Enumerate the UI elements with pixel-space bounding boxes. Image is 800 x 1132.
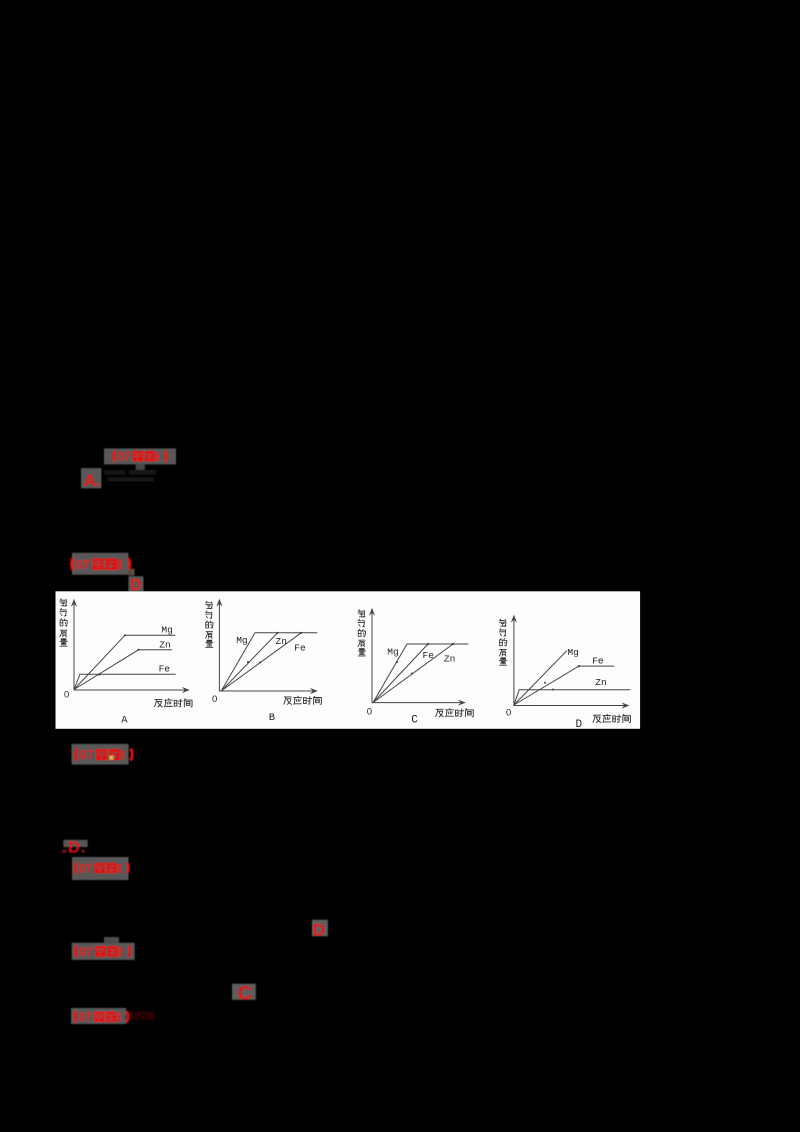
chart C y-axis bbox=[371, 610, 373, 703]
svg-text:Mg: Mg bbox=[236, 635, 247, 646]
chart B y-axis bbox=[218, 601, 220, 691]
svg-text:0: 0 bbox=[64, 690, 69, 701]
svg-text:C: C bbox=[411, 714, 418, 726]
chart B x label 反应时间 bbox=[284, 696, 322, 704]
highlight box A bbox=[81, 468, 101, 488]
highlight box 7 bbox=[72, 943, 135, 960]
chart A y-axis bbox=[73, 601, 75, 690]
svg-text:D: D bbox=[312, 920, 325, 939]
svg-text:Fe: Fe bbox=[423, 650, 435, 661]
chart B dots bbox=[247, 632, 302, 664]
chart C Fe line bbox=[373, 644, 428, 703]
chart C Zn line bbox=[373, 644, 453, 703]
svg-text:Fe: Fe bbox=[294, 642, 306, 653]
chart A x label 反应时间 bbox=[154, 699, 192, 707]
chart B Mg line bbox=[221, 633, 317, 691]
svg-text:C: C bbox=[238, 982, 252, 1004]
chart D y-axis bbox=[513, 617, 515, 706]
highlight box 1 bbox=[104, 448, 176, 464]
chart D x-axis bbox=[514, 705, 625, 707]
red annotation 3 bbox=[76, 748, 133, 762]
chart D Mg line bbox=[514, 651, 567, 705]
chart C x label 反应时间 bbox=[436, 708, 474, 716]
highlight box 9 bbox=[71, 1008, 126, 1024]
brown square bbox=[128, 569, 134, 576]
chart D Fe line bbox=[514, 666, 614, 705]
chart D x label 反应时间 bbox=[593, 714, 631, 722]
svg-text:A: A bbox=[121, 715, 128, 727]
svg-text:Zn: Zn bbox=[595, 677, 606, 688]
ghost blob above box 7 bbox=[104, 937, 119, 943]
svg-text:0: 0 bbox=[367, 707, 372, 718]
chart C Mg line bbox=[373, 644, 468, 703]
svg-text:0: 0 bbox=[506, 707, 511, 718]
svg-text:B: B bbox=[269, 712, 275, 724]
svg-text:Mg: Mg bbox=[387, 647, 398, 658]
highlight box small D bbox=[312, 920, 328, 936]
svg-text:D: D bbox=[576, 719, 583, 731]
chart D y label 氢气的质量 bbox=[499, 619, 507, 665]
ghost marks right of A bbox=[104, 470, 156, 482]
chart A x-axis bbox=[74, 689, 186, 691]
chart B x-axis bbox=[219, 690, 313, 692]
svg-text:Zn: Zn bbox=[276, 636, 287, 647]
svg-text:A.: A. bbox=[84, 471, 101, 490]
svg-text:Zn: Zn bbox=[444, 653, 455, 664]
highlight box 5 bbox=[72, 857, 129, 880]
chart B Fe line bbox=[221, 633, 301, 691]
svg-text:Fe: Fe bbox=[159, 664, 171, 675]
chart D Zn line bbox=[514, 690, 630, 705]
svg-text:0: 0 bbox=[212, 694, 217, 705]
chart B Zn line bbox=[221, 633, 277, 691]
chart A Fe line bbox=[74, 674, 175, 689]
chart D dots bbox=[544, 665, 580, 691]
chart A dots bbox=[98, 634, 139, 675]
red annotation 7 bbox=[75, 945, 130, 959]
red annotation 5 bbox=[75, 861, 128, 875]
yellow dot bbox=[109, 756, 113, 760]
highlight box C bbox=[232, 984, 256, 1000]
highlight box D bbox=[128, 576, 143, 591]
highlight box D. bbox=[63, 840, 87, 847]
svg-text:D.: D. bbox=[68, 839, 86, 856]
chart B y label 氢气的质量 bbox=[205, 601, 213, 647]
svg-text:Fe: Fe bbox=[592, 655, 604, 666]
red smear left of D. bbox=[62, 850, 67, 853]
chart A Mg line bbox=[74, 635, 175, 689]
highlight box 3 bbox=[72, 744, 129, 765]
red annotation 1 bbox=[113, 450, 166, 464]
red annotation 2 bbox=[71, 557, 130, 572]
svg-text:Zn: Zn bbox=[159, 639, 170, 650]
dark red smear right of box 9 bbox=[129, 1012, 155, 1020]
svg-text:Mg: Mg bbox=[161, 624, 172, 635]
chart C dots bbox=[396, 643, 454, 675]
highlight box 2 bbox=[72, 553, 128, 575]
chart C y label 氢气的质量 bbox=[358, 610, 366, 656]
svg-text:Mg: Mg bbox=[567, 647, 578, 658]
highlight box 1 tab bbox=[136, 464, 145, 471]
chart C x-axis bbox=[372, 702, 462, 704]
red annotation 9 bbox=[75, 1010, 128, 1024]
chart A y label 氢气的质量 bbox=[60, 599, 68, 646]
chart A Zn line bbox=[74, 650, 172, 690]
